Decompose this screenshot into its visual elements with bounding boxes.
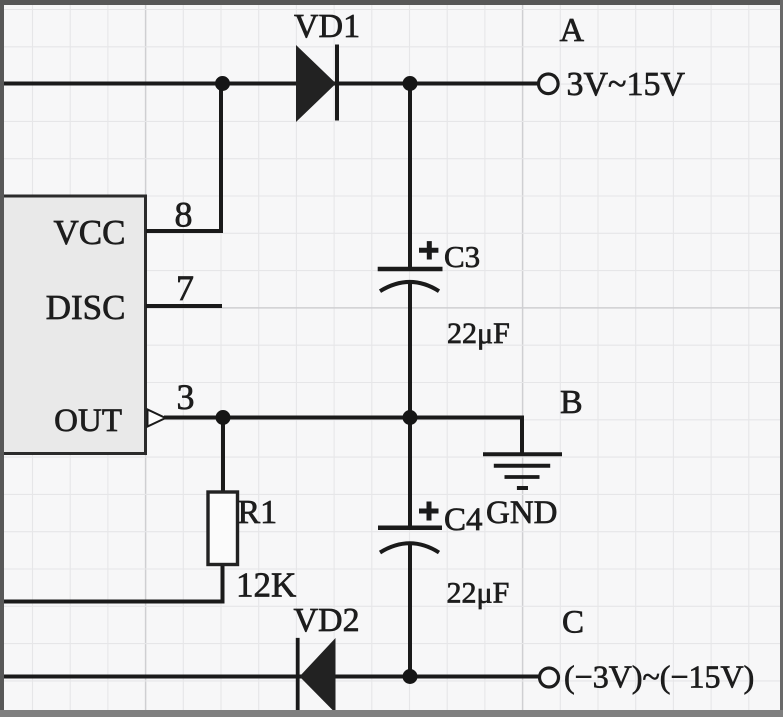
- svg-text:DISC: DISC: [46, 288, 126, 327]
- svg-text:3: 3: [177, 377, 195, 417]
- svg-text:8: 8: [175, 195, 193, 235]
- svg-text:B: B: [560, 384, 583, 421]
- svg-text:VD2: VD2: [294, 602, 360, 639]
- svg-text:R1: R1: [238, 494, 278, 531]
- svg-text:VCC: VCC: [54, 213, 126, 252]
- svg-text:VD1: VD1: [294, 8, 360, 45]
- svg-text:12K: 12K: [236, 566, 296, 605]
- svg-text:C4: C4: [444, 502, 483, 538]
- svg-text:3V~15V: 3V~15V: [567, 66, 686, 103]
- svg-text:GND: GND: [486, 495, 558, 531]
- svg-text:22μF: 22μF: [447, 577, 510, 610]
- svg-text:A: A: [560, 12, 585, 49]
- svg-text:22μF: 22μF: [447, 317, 510, 350]
- svg-text:(−3V)~(−15V): (−3V)~(−15V): [564, 659, 754, 695]
- svg-text:OUT: OUT: [54, 403, 122, 439]
- svg-text:C: C: [562, 605, 584, 641]
- svg-text:7: 7: [176, 268, 194, 308]
- svg-text:C3: C3: [444, 239, 480, 274]
